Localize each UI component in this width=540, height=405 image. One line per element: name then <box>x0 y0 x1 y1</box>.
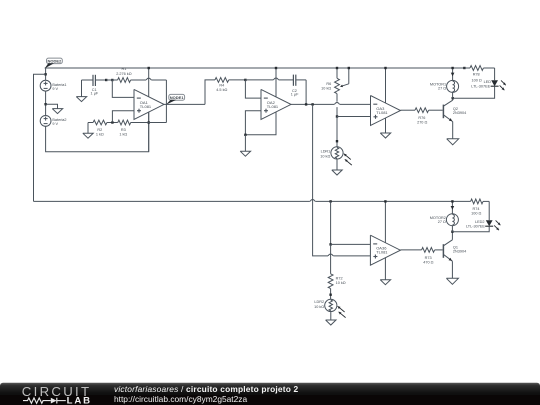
svg-text:27 Ω: 27 Ω <box>438 220 446 224</box>
junction OA36 inv node <box>329 243 331 245</box>
svg-text:4.5 kΩ: 4.5 kΩ <box>216 88 227 92</box>
node NODE1 label <box>166 94 185 104</box>
wire LED2 return to collector <box>452 226 489 232</box>
wire Q2 emitter down <box>452 122 454 139</box>
junction rail R72 <box>329 200 331 202</box>
footer title text <box>114 384 299 404</box>
wire MOTOR2 bottom <box>451 226 453 232</box>
svg-text:9 V: 9 V <box>52 87 58 91</box>
wire Bateria2 to V- rail <box>46 112 149 152</box>
wire OA36 inverting input <box>331 243 371 245</box>
wire MOTOR1 bottom <box>452 93 454 99</box>
photoresistor LDR2 10k <box>314 299 346 317</box>
svg-text:LDR2: LDR2 <box>314 300 324 304</box>
junction OA3 plus node <box>336 115 338 117</box>
wire OA2 V+ pin <box>275 68 277 97</box>
wire to OA1 inverting input <box>112 80 134 97</box>
resistor R4 4.5k <box>215 78 245 93</box>
svg-text:1 kΩ: 1 kΩ <box>119 132 127 136</box>
resistor R73 470 <box>422 248 443 265</box>
wire down to LDR1 <box>336 117 338 147</box>
wire OA2 output to OA3 inverting <box>291 103 371 105</box>
svg-text:LTL-307EE: LTL-307EE <box>466 224 485 228</box>
op-amp OA2 <box>261 89 291 119</box>
svg-text:9 V: 9 V <box>52 122 58 126</box>
svg-text:10 kΩ: 10 kΩ <box>320 154 330 158</box>
svg-text:10 kΩ: 10 kΩ <box>314 305 324 309</box>
wire OA1 V- pin <box>148 112 150 152</box>
arrow MOTOR2 wire <box>451 206 455 210</box>
svg-text:2N3904: 2N3904 <box>453 111 466 115</box>
svg-text:1 kΩ: 1 kΩ <box>96 132 104 136</box>
wire OA36 output <box>400 249 421 251</box>
op-amp OA3 <box>371 96 401 126</box>
transistor Q2 2N3904 <box>443 100 466 121</box>
ground C1 <box>76 80 86 102</box>
svg-text:R1: R1 <box>121 67 126 71</box>
photoresistor LDR1 10k <box>320 147 352 165</box>
ground OA36 V- <box>380 258 390 285</box>
svg-text:LDR1: LDR1 <box>321 150 331 154</box>
svg-text:NODE1: NODE1 <box>170 95 185 100</box>
ground Q1 <box>446 278 458 284</box>
svg-text:R73: R73 <box>425 256 432 260</box>
motor MOTOR2 27 <box>430 214 459 226</box>
svg-text:R2: R2 <box>97 128 102 132</box>
svg-text:R4: R4 <box>219 83 224 87</box>
svg-text:2.276 kΩ: 2.276 kΩ <box>116 72 131 76</box>
svg-text:NODE2: NODE2 <box>48 58 63 63</box>
svg-text:2N3904: 2N3904 <box>453 250 466 254</box>
wire C2 to output <box>305 80 307 105</box>
wire rail to MOTOR2 <box>451 201 453 213</box>
op-amp OA1 <box>134 89 164 119</box>
resistor R74 100 <box>471 199 490 215</box>
junction inverting node OA1 <box>111 79 113 81</box>
ground LDR2 <box>326 312 336 326</box>
ground OA2 <box>240 135 250 156</box>
footer bar <box>0 383 540 405</box>
wire to OA2 inverting input <box>245 80 261 98</box>
CircuitLab logo doodle <box>23 398 66 404</box>
wire OA3 output <box>401 109 416 111</box>
svg-text:100 Ω: 100 Ω <box>471 78 481 82</box>
svg-text:470 Ω: 470 Ω <box>423 261 433 265</box>
resistor R76 270 <box>415 108 443 125</box>
wire NODE2 to Bateria1 <box>45 68 47 80</box>
svg-text:LTL-307EE: LTL-307EE <box>471 85 490 89</box>
wire R78 down to LED <box>494 68 496 80</box>
junction LDR1 top <box>336 140 338 142</box>
wire R74 down to LED2 <box>488 201 490 220</box>
resistor R1 2.276k <box>106 67 166 83</box>
svg-text:victorfariasoares / circuito c: victorfariasoares / circuito completo pr… <box>114 384 299 394</box>
svg-text:R76: R76 <box>418 116 425 120</box>
wire rail down to OA36 inverting <box>330 201 332 244</box>
led LED2 LTL-307EE <box>466 220 500 230</box>
ground R2 <box>83 123 93 139</box>
op-amp OA36 <box>370 235 400 265</box>
pot R6 wiper <box>340 68 349 87</box>
junction MOTOR2 rail <box>451 200 453 202</box>
svg-text:R3: R3 <box>121 128 126 132</box>
wire R1 feedback drop <box>165 80 167 123</box>
junction OA1 V+ rail <box>148 67 150 69</box>
led LED1 LTL-307EE <box>471 80 506 90</box>
svg-text:270 Ω: 270 Ω <box>417 121 427 125</box>
resistor R2 1k <box>88 120 118 136</box>
wire Q1 emitter down <box>451 261 453 278</box>
node NODE2 label <box>45 58 63 68</box>
svg-text:http://circuitlab.com/cy8ym2g5: http://circuitlab.com/cy8ym2g5at2za <box>114 394 247 404</box>
junction OA36 V+ rail <box>384 200 386 202</box>
wire OA36 V+ pin <box>384 201 386 242</box>
svg-text:R78: R78 <box>473 72 480 76</box>
wire plus node to OA3 <box>337 116 371 118</box>
svg-text:TL081: TL081 <box>376 110 388 115</box>
wire rail to MOTOR1 <box>452 68 454 80</box>
ground OA3 V- <box>380 118 390 138</box>
junction R6 top rail <box>336 67 338 69</box>
svg-text:R6: R6 <box>326 82 331 86</box>
transistor Q1 2N3904 <box>443 240 466 261</box>
wire inv node down to R72 <box>330 244 332 273</box>
wire LED1 return to collector <box>453 86 495 98</box>
resistor R78 100 <box>464 66 494 83</box>
svg-text:TL081: TL081 <box>140 104 152 109</box>
svg-text:100 Ω: 100 Ω <box>471 211 481 215</box>
wire OA2 V- pin <box>245 112 276 135</box>
junction Q2 collector motor <box>452 97 454 99</box>
svg-text:1 μF: 1 μF <box>291 93 299 97</box>
junction OA1 V- <box>148 121 150 123</box>
svg-text:LED: LED <box>484 80 492 84</box>
capacitor C2 <box>245 75 306 97</box>
junction mid-battery <box>44 103 46 105</box>
svg-text:R72: R72 <box>336 277 343 281</box>
wire OA36 plus input <box>328 254 370 256</box>
wire top +9V rail <box>45 67 465 69</box>
junction LDR2 top <box>329 294 331 296</box>
junction R4-C2-OA2inv <box>244 79 246 81</box>
ground mid-battery <box>46 104 63 113</box>
wire left drop to lower rail <box>34 74 46 201</box>
junction Q1 collector motor2 <box>451 231 453 233</box>
wire OA1 output <box>164 103 205 105</box>
svg-text:10 kΩ: 10 kΩ <box>321 87 331 91</box>
wire OA2 non-inverting to ground <box>245 111 261 135</box>
wire OA3 V+ pin <box>385 68 387 103</box>
battery Bateria2 <box>40 116 66 127</box>
wire Q2 collector up <box>452 98 454 100</box>
svg-text:27 Ω: 27 Ω <box>438 87 446 91</box>
wire output down to OA36 <box>313 104 328 256</box>
wire Q1 collector up <box>451 232 453 240</box>
wire NODE1 up to R4 <box>205 80 215 105</box>
battery Bateria1 <box>40 80 66 91</box>
ground Q2 <box>447 139 459 145</box>
junction MOTOR1 rail <box>451 67 453 69</box>
junction rail R78 <box>463 67 465 69</box>
wire between batteries <box>45 91 47 115</box>
arrow MOTOR1 wire <box>451 73 455 77</box>
motor MOTOR1 27 <box>430 80 459 92</box>
wire to OA1 non-inverting input <box>112 111 134 123</box>
junction OA3 V+ rail <box>384 67 386 69</box>
junction C1-R1 <box>105 79 107 81</box>
ground LDR1 <box>332 159 342 175</box>
junction R6 wiper rail <box>348 67 350 69</box>
junction OA2 gnd node <box>244 134 246 136</box>
svg-text:1 μF: 1 μF <box>91 92 99 96</box>
resistor R72 10k <box>328 274 346 300</box>
junction output to lower section <box>311 103 313 105</box>
svg-text:LAB: LAB <box>67 396 92 405</box>
junction battery-left <box>44 73 46 75</box>
svg-text:TL081: TL081 <box>376 250 388 255</box>
capacitor C1 <box>82 75 107 96</box>
resistor R3 1k <box>118 120 167 136</box>
junction R2-R3 <box>111 121 113 123</box>
junction C2 output <box>305 103 307 105</box>
svg-text:10 kΩ: 10 kΩ <box>336 281 346 285</box>
junction OA2 V+ rail <box>275 67 277 69</box>
CircuitLab logo text <box>22 384 92 405</box>
wire OA1 V+ pin <box>148 68 150 97</box>
potentiometer R6 10k <box>321 68 339 117</box>
svg-text:TL081: TL081 <box>267 104 279 109</box>
wire lower rail <box>34 200 471 202</box>
